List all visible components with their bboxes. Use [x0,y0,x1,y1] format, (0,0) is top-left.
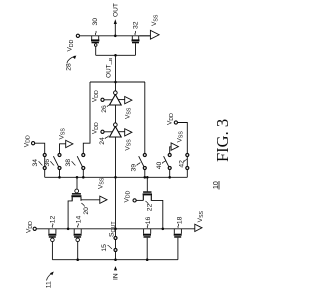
svg-text:VSS: VSS [124,107,132,119]
wire switch-rail stub sw42 [186,170,188,177]
svg-text:16: 16 [145,217,152,225]
node dot bus/IN [114,258,117,261]
label 18 [177,216,184,227]
svg-text:15: 15 [101,244,108,252]
svg-text:40: 40 [156,162,163,170]
VDD terminal (switch 42) [167,113,178,125]
svg-text:14: 14 [76,216,83,224]
wire IN bus [52,259,177,261]
switch 38 (open) [77,154,85,170]
node dot output rail/OUT [114,34,117,37]
node dot switch-rail/main [114,176,117,179]
label 28 with arrow [65,55,76,70]
svg-text:VDD: VDD [67,39,75,51]
transistor 32 (NMOS) [132,36,140,56]
node dot rail/t20 [67,228,70,231]
switch 42 (closed) [186,154,189,170]
wire switch-rail stub sw38 [82,170,84,177]
VSS symbol (switch 40) [171,131,184,151]
svg-text:IN: IN [113,273,120,280]
svg-text:VDD: VDD [92,90,100,102]
transistor 12 (PMOS) [48,229,56,260]
svg-text:22: 22 [147,203,154,211]
switch 36 (open) [53,154,61,170]
wire transistor 20 source to VDD rail [68,197,72,229]
wire VSS symbol to switch 36 [60,144,66,153]
label 15 [101,244,112,252]
label 40 [156,160,166,169]
VDD terminal (transistor 22) [123,190,136,202]
wire switch rail (S_OUT node) [45,176,188,178]
label 10 underlined [213,181,220,190]
svg-text:20: 20 [83,207,90,215]
svg-text:32: 32 [132,21,139,29]
label 12 [49,216,56,228]
label 34 [32,159,43,167]
wire rail to switch-rail (S_OUT segment) [115,177,117,229]
switch 40 (open) [164,154,172,170]
transistor 22 (NMOS, gate right) [143,191,152,200]
label 38 [65,159,76,167]
node dot bus/t14 gate [76,258,79,261]
label 42 [178,159,187,168]
node dot rail/t22 [162,228,165,231]
wire OUT_B to output stage gates [115,55,117,82]
svg-text:12: 12 [49,216,56,224]
wire transistor 22 source lead [142,195,144,200]
switch 15 (closed) [114,237,117,252]
wire switch-rail stub sw39 [144,170,146,177]
wire switch-rail stub sw40 [169,170,171,177]
wire transistor 20 gate to switch rail [76,177,78,189]
switch 34 (closed) [43,154,46,170]
wire switch-rail stub sw36 [59,170,61,177]
svg-text:24: 24 [99,137,106,145]
label 32 [132,21,139,35]
svg-text:36: 36 [44,159,51,167]
label 30 [92,18,99,35]
svg-text:30: 30 [92,18,99,26]
svg-text:VSS: VSS [197,210,205,222]
wire switch15 to VDD rail [115,229,117,237]
node dot switch-rail/sw39 [144,176,147,179]
svg-text:28: 28 [65,63,72,71]
label 36 [44,159,54,167]
svg-text:VSS: VSS [151,14,159,26]
label 20 [81,203,90,215]
transistor 30 (PMOS) [91,36,99,56]
VSS symbol (main rail) [195,210,205,231]
OUT arrow [113,3,120,36]
svg-text:FIG. 3: FIG. 3 [213,119,232,162]
wire switch-rail stub sw34 [44,170,46,177]
svg-text:VSS: VSS [58,128,66,140]
wire transistor 22 gate to switch rail [146,177,148,191]
svg-text:VSS: VSS [98,177,106,189]
svg-text:VSS: VSS [124,139,132,151]
wire VSS symbol to switch 40 [170,147,171,153]
switch 39 (open) [139,154,147,170]
svg-text:38: 38 [65,159,72,167]
wire transistor 22 drain to VDD rail [151,195,163,229]
IN arrow [113,266,120,280]
wire feedback bottom run to switch 39 [144,82,146,153]
VSS symbol (transistor 20) [98,177,108,203]
node dot switch-rail/sw40 [168,176,171,179]
VSS symbol (switch 36) [58,128,73,148]
inverter 24 [92,122,133,151]
svg-text:OUT: OUT [113,3,120,17]
wire switch-rail to inverter 24 input [115,137,117,177]
svg-text:11: 11 [46,281,53,288]
label 14 [76,216,83,228]
label 22 [146,201,154,211]
svg-text:VDD: VDD [167,113,175,125]
node dot OUT_B riser [114,81,117,84]
transistor 20 (PMOS, gate right) [71,189,81,201]
node dot rail/S_OUT [114,228,117,231]
wire VDD terminal to switch 42 [178,123,188,154]
wire inverter 24 output to inverter 26 input [115,105,117,123]
wire IN stub to switch 15 [115,251,117,259]
transistor 14 (PMOS) [74,229,82,260]
VDD terminal (output stage) [67,34,80,51]
wire output-stage rail [80,35,151,37]
svg-text:VDD: VDD [123,190,131,202]
VDD terminal (switch 34) [23,135,34,147]
wire feedback top run to switch 38 [83,82,90,153]
svg-text:VDD: VDD [23,135,31,147]
node dot switch-rail/t20 gate [76,176,79,179]
VDD terminal (main rail) [26,221,37,233]
wire output rail to VSS [140,35,151,37]
svg-text:18: 18 [177,216,184,224]
transistor 18 (NMOS) [174,229,182,260]
node dot gates wire [114,54,117,57]
wire OUT_B vertical feedback riser [90,81,145,83]
wire output stage gates [96,54,136,56]
node dot switch-rail/sw36 [58,176,61,179]
wire transistor 20 drain to VSS [81,197,100,200]
label 24 [99,136,109,145]
VSS symbol (output stage) [150,14,159,39]
label 26 [101,104,110,113]
node dot switch-rail/sw38 [82,176,85,179]
wire VDD terminal to switch 34 [35,143,45,153]
label 16 [145,217,152,228]
svg-text:VDD: VDD [26,221,34,233]
label 39 [131,162,141,171]
inverter 26 [92,90,133,119]
transistor 16 (NMOS) [143,229,151,260]
label 11 with arrow [46,272,54,289]
svg-text:34: 34 [32,159,39,167]
wire inverter 26 output to OUT_B corner [115,82,117,91]
node dot switch-rail/t22 gate [146,176,149,179]
wire main VDD rail [36,228,195,230]
wire transistor 22 source to VDD terminal [136,199,143,201]
svg-text:VDD: VDD [92,122,100,134]
svg-text:VSS: VSS [176,131,184,143]
node dot bus/t16 gate [146,258,149,261]
